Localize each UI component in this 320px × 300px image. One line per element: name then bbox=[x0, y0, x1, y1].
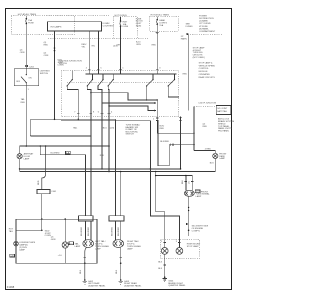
svg-text:BLK/RED: BLK/RED bbox=[88, 227, 90, 236]
svg-text:(4): (4) bbox=[44, 42, 47, 44]
svg-text:GRN: GRN bbox=[51, 239, 56, 241]
wire from box A left drop to L1 bbox=[54, 31, 56, 119]
svg-text:VEHICLE SPEED: VEHICLE SPEED bbox=[199, 65, 216, 67]
inline connector C202 on left wire bbox=[25, 65, 27, 66]
svg-text:LAMP: LAMP bbox=[24, 157, 30, 160]
svg-text:MODULE: MODULE bbox=[199, 71, 209, 73]
wire park lamp to bus B2 bbox=[214, 159, 216, 172]
wire L2 to right tail lamp bbox=[30, 135, 91, 137]
svg-text:COMPARTMENT: COMPARTMENT bbox=[199, 30, 216, 33]
svg-text:BLU/RED: BLU/RED bbox=[51, 153, 61, 155]
svg-text:RED: RED bbox=[100, 155, 105, 157]
connector dashed box: headlight fuse bbox=[149, 16, 178, 31]
right tail/stop lamp (lamp1) bbox=[83, 240, 94, 248]
switch blade 3 bbox=[98, 80, 103, 86]
svg-text:LAMP: LAMP bbox=[95, 247, 101, 250]
wire turn lamp pin1 bbox=[185, 176, 187, 191]
svg-text:RED: RED bbox=[44, 45, 49, 47]
svg-text:2-C: 2-C bbox=[69, 243, 73, 245]
svg-text:BLK: BLK bbox=[158, 268, 163, 270]
wire from fuse F1 down inside block bbox=[25, 24, 27, 34]
svg-text:FUSES: FUSES bbox=[186, 26, 194, 28]
ground G402 bbox=[83, 281, 87, 284]
switch blade 2 bbox=[87, 80, 92, 86]
wire tail lamp to ground bus bbox=[64, 248, 66, 263]
svg-text:STOP LAMP: STOP LAMP bbox=[187, 245, 199, 248]
wire down from L3 to rear harness bbox=[42, 146, 46, 190]
svg-text:STOP LAMP &: STOP LAMP & bbox=[199, 61, 213, 64]
svg-text:HARN: HARN bbox=[181, 38, 187, 41]
connector dashed box: left fuse block bbox=[11, 16, 75, 34]
pin tick wire 120.5 bbox=[119, 68, 122, 70]
svg-text:RED: RED bbox=[203, 126, 208, 128]
svg-text:CONTROL: CONTROL bbox=[199, 68, 210, 70]
svg-text:BLU/RED: BLU/RED bbox=[81, 226, 83, 236]
switch blade 5 (dimmer) bbox=[147, 80, 153, 86]
connector arrow on turn lamp ground bbox=[186, 223, 189, 225]
connector box right bbox=[216, 106, 231, 115]
svg-text:BLK: BLK bbox=[158, 261, 163, 263]
svg-text:(2): (2) bbox=[188, 181, 190, 184]
right area: dashed lead to I/P harness bbox=[190, 33, 222, 35]
dome light switch box SW1 bbox=[14, 69, 39, 86]
inline connector C401 bbox=[37, 190, 50, 194]
svg-text:RED: RED bbox=[152, 45, 157, 47]
page border frame bbox=[6, 9, 232, 290]
wire circle down to buses bbox=[19, 159, 21, 172]
wire from fuse F2 down bbox=[120, 27, 122, 36]
splice S201 on box A drop bbox=[54, 47, 56, 49]
svg-text:BLK: BLK bbox=[116, 269, 118, 274]
right vertical wire through junction bbox=[193, 107, 195, 151]
headlight switch dashed box bbox=[61, 71, 179, 117]
svg-text:C401: C401 bbox=[51, 191, 57, 193]
svg-text:(8) PANEL: (8) PANEL bbox=[199, 27, 210, 30]
wire BLU/RED jog to lamp1 left pin bbox=[40, 146, 85, 216]
right tail/stop lamp (lamp2) bbox=[113, 240, 124, 248]
page ref 4-B bbox=[10, 254, 15, 257]
illumination feed circle component bbox=[19, 146, 21, 154]
fuse F3 HEAD 15A bbox=[156, 17, 167, 27]
svg-text:SWITCH: SWITCH bbox=[59, 63, 68, 65]
dashed junction block top line bbox=[47, 15, 111, 17]
wires from blades down to bottom pins bbox=[67, 86, 78, 114]
svg-text:LAMP: LAMP bbox=[127, 247, 133, 250]
svg-text:(NOT USED): (NOT USED) bbox=[193, 57, 205, 59]
svg-text:RED: RED bbox=[38, 180, 40, 185]
svg-text:LAMP: LAMP bbox=[75, 245, 81, 248]
svg-text:COMPT): COMPT) bbox=[192, 230, 201, 232]
svg-text:F1398: F1398 bbox=[7, 285, 15, 289]
svg-text:INT LAMPS: INT LAMPS bbox=[51, 25, 63, 28]
low beam internal wire H1 bbox=[91, 93, 157, 100]
svg-text:BLU: BLU bbox=[103, 128, 108, 130]
dashed harness line below fuse boxes bbox=[48, 37, 149, 39]
fuse F2 10A bbox=[120, 17, 129, 28]
wire backup to ground bbox=[164, 254, 166, 277]
connector dashed box: run fuse bbox=[113, 17, 137, 39]
backup lamp right bbox=[178, 240, 180, 248]
wire B2 corner down to lamp2 right pin bbox=[120, 172, 122, 216]
ground bus inside rear box bbox=[16, 262, 85, 264]
front turn signal lamp bbox=[184, 190, 194, 196]
svg-text:QUARTER PANEL: QUARTER PANEL bbox=[168, 284, 186, 287]
switch contact dots bbox=[72, 79, 73, 80]
wires into lamp2 bbox=[115, 221, 117, 240]
pin tick wire 89.3 bbox=[88, 68, 91, 70]
svg-text:ORN: ORN bbox=[116, 45, 121, 47]
ground G403 bbox=[119, 281, 123, 284]
wire backup feed 1 from bus B2 bbox=[156, 172, 165, 240]
svg-text:(4.8): (4.8) bbox=[110, 128, 115, 130]
svg-text:ON: ON bbox=[28, 77, 32, 79]
connector arrow into harness bbox=[187, 33, 190, 35]
wire pin7 down to L1 bbox=[77, 114, 79, 119]
wire second conductor from switch pin1 bbox=[158, 120, 169, 165]
wire L1 corner down to lamp2 left pin bbox=[115, 119, 117, 215]
wire corner to bulkhead bbox=[157, 107, 194, 134]
wire from fuse F3 down with inline connector bbox=[156, 25, 158, 71]
wire from fuse F2 to switch box bbox=[120, 36, 122, 75]
svg-text:QUARTER PANEL: QUARTER PANEL bbox=[124, 285, 142, 288]
contact stubs from bus bbox=[71, 71, 73, 80]
wire L3 tail feed line bbox=[20, 145, 109, 147]
bottom pin ticks of switch box bbox=[77, 112, 80, 114]
internal wire H2 with arrow bbox=[102, 102, 155, 104]
svg-text:RED: RED bbox=[21, 102, 26, 104]
wire down to rear lamps box bbox=[41, 194, 43, 230]
svg-text:OPERATED: OPERATED bbox=[199, 73, 211, 76]
wires into lamp1 bbox=[85, 221, 87, 240]
wire from switch right down bbox=[156, 100, 158, 133]
connector box on lamp1 feeds bbox=[79, 216, 94, 221]
wire lamp1 to ground bbox=[85, 247, 87, 280]
svg-text:ORN: ORN bbox=[136, 44, 141, 46]
switch blade 6 (passing) bbox=[168, 80, 174, 86]
svg-text:BLK: BLK bbox=[182, 179, 184, 184]
svg-text:SWITCH: SWITCH bbox=[40, 73, 49, 75]
pin ticks backup bbox=[163, 241, 166, 243]
svg-text:LAMP: LAMP bbox=[219, 157, 225, 160]
switch blade 1 bbox=[67, 80, 72, 86]
left tail lamp label bbox=[69, 242, 74, 245]
rear body box bbox=[16, 219, 97, 263]
turn lamp label bbox=[195, 190, 200, 193]
svg-text:15A: 15A bbox=[159, 24, 163, 27]
front park lamp right bbox=[213, 153, 218, 158]
wire lamp2 to ground bbox=[120, 247, 122, 280]
svg-text:REAR CIRCUITS: REAR CIRCUITS bbox=[199, 76, 216, 79]
svg-text:C202: C202 bbox=[29, 67, 35, 69]
svg-text:LAMP: LAMP bbox=[196, 195, 202, 198]
svg-text:HOT AT ALL TIMES: HOT AT ALL TIMES bbox=[151, 13, 170, 16]
svg-text:RED: RED bbox=[160, 128, 165, 130]
svg-text:BLK: BLK bbox=[210, 163, 215, 165]
wire turn lamp feed line bbox=[156, 176, 192, 191]
component box A: interior lamps relay strip bbox=[47, 22, 101, 31]
svg-text:ORN: ORN bbox=[44, 55, 49, 57]
bus B1 bbox=[20, 168, 181, 170]
license lamp bbox=[14, 241, 19, 246]
wire L1 park feed bbox=[29, 119, 31, 136]
wire from fuse F1 down left side bbox=[25, 34, 27, 68]
svg-text:BLK/RED: BLK/RED bbox=[160, 141, 169, 143]
svg-text:QUARTER PANEL: QUARTER PANEL bbox=[88, 285, 106, 288]
svg-text:HOT AT ALL TIMES: HOT AT ALL TIMES bbox=[18, 13, 37, 16]
internal wire H3 with arrow bbox=[109, 106, 155, 110]
connector box on lamp2 feeds bbox=[109, 216, 124, 221]
wire pin8 down to L2 corner bbox=[90, 114, 92, 136]
svg-text:RED: RED bbox=[183, 74, 188, 76]
wire label 2-A RED bbox=[66, 151, 71, 154]
short lead with inline connector bbox=[169, 144, 194, 146]
wire box A right drop bbox=[97, 31, 99, 74]
feed to license lamp bbox=[16, 229, 42, 231]
switch blade 4 bbox=[108, 80, 113, 86]
feed to left tail lamp from box top bbox=[64, 219, 66, 242]
svg-text:BLU/RED: BLU/RED bbox=[111, 226, 113, 236]
wire SW1 down to tail feed line bbox=[25, 86, 27, 146]
backup lamp left bbox=[164, 240, 166, 248]
wire from passing blade right bbox=[168, 86, 179, 97]
svg-text:SIDE): SIDE) bbox=[136, 26, 142, 28]
svg-text:C20 I/P JUNCTION: C20 I/P JUNCTION bbox=[198, 103, 216, 105]
svg-text:FUSE: FUSE bbox=[28, 23, 34, 25]
svg-text:(2): (2) bbox=[20, 49, 23, 51]
ground G404 bbox=[164, 276, 166, 278]
svg-text:2 RED: 2 RED bbox=[205, 148, 212, 150]
wire backup feed 2 via L1b bbox=[61, 121, 179, 240]
mechanical linkage dashed line bbox=[67, 81, 173, 83]
wire right side vertical from harness bbox=[188, 35, 190, 111]
svg-text:BATT/TAIL: BATT/TAIL bbox=[217, 110, 228, 113]
fuse F1 TAIL 15A bbox=[26, 16, 35, 25]
switch lever inside SW1 bbox=[26, 74, 27, 75]
left tail lamp bbox=[62, 242, 68, 248]
svg-text:FUSE: FUSE bbox=[123, 26, 129, 28]
wire turn lamp down bbox=[188, 196, 190, 236]
pin tick wire 98.4 bbox=[97, 68, 100, 70]
wire box A middle drop bbox=[88, 31, 90, 74]
backup lamps dashed box bbox=[160, 240, 199, 258]
pin tick wire 157.2 bbox=[156, 68, 159, 70]
bus B2 bbox=[20, 171, 216, 173]
svg-text:ORN: ORN bbox=[20, 52, 25, 54]
headlight wire pins below box right bbox=[156, 117, 159, 119]
svg-text:BLK: BLK bbox=[80, 269, 82, 274]
wire to front park lamp bbox=[194, 150, 215, 153]
svg-text:LAMP: LAMP bbox=[19, 248, 25, 251]
wire from dimmer blade to H1 bbox=[146, 86, 148, 100]
dashed bulkhead lead bbox=[194, 106, 216, 108]
wire pin4 down to bus B2 bbox=[108, 114, 110, 172]
internal bus wire of switch bbox=[85, 73, 176, 75]
pin ticks turn lamp bbox=[185, 181, 188, 183]
svg-text:SWITCH: SWITCH bbox=[126, 134, 135, 136]
svg-text:PNL PANEL: PNL PANEL bbox=[218, 130, 230, 133]
svg-text:BLK/RED: BLK/RED bbox=[118, 227, 120, 236]
svg-text:(2) BANK: (2) BANK bbox=[199, 20, 208, 23]
svg-text:OFF: OFF bbox=[16, 81, 21, 83]
wire pin6 down to bus B1 bbox=[101, 114, 103, 169]
switch internal drops from bus bbox=[88, 71, 90, 74]
